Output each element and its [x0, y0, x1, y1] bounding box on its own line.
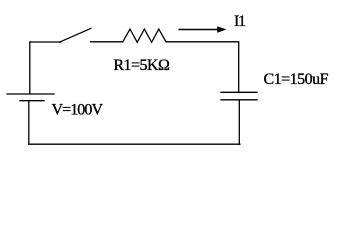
svg-text:C1=150uF: C1=150uF — [264, 71, 329, 88]
svg-text:V=100V: V=100V — [52, 101, 104, 118]
svg-text:R1=5KΩ: R1=5KΩ — [113, 57, 170, 74]
svg-text:I1: I1 — [234, 13, 246, 30]
